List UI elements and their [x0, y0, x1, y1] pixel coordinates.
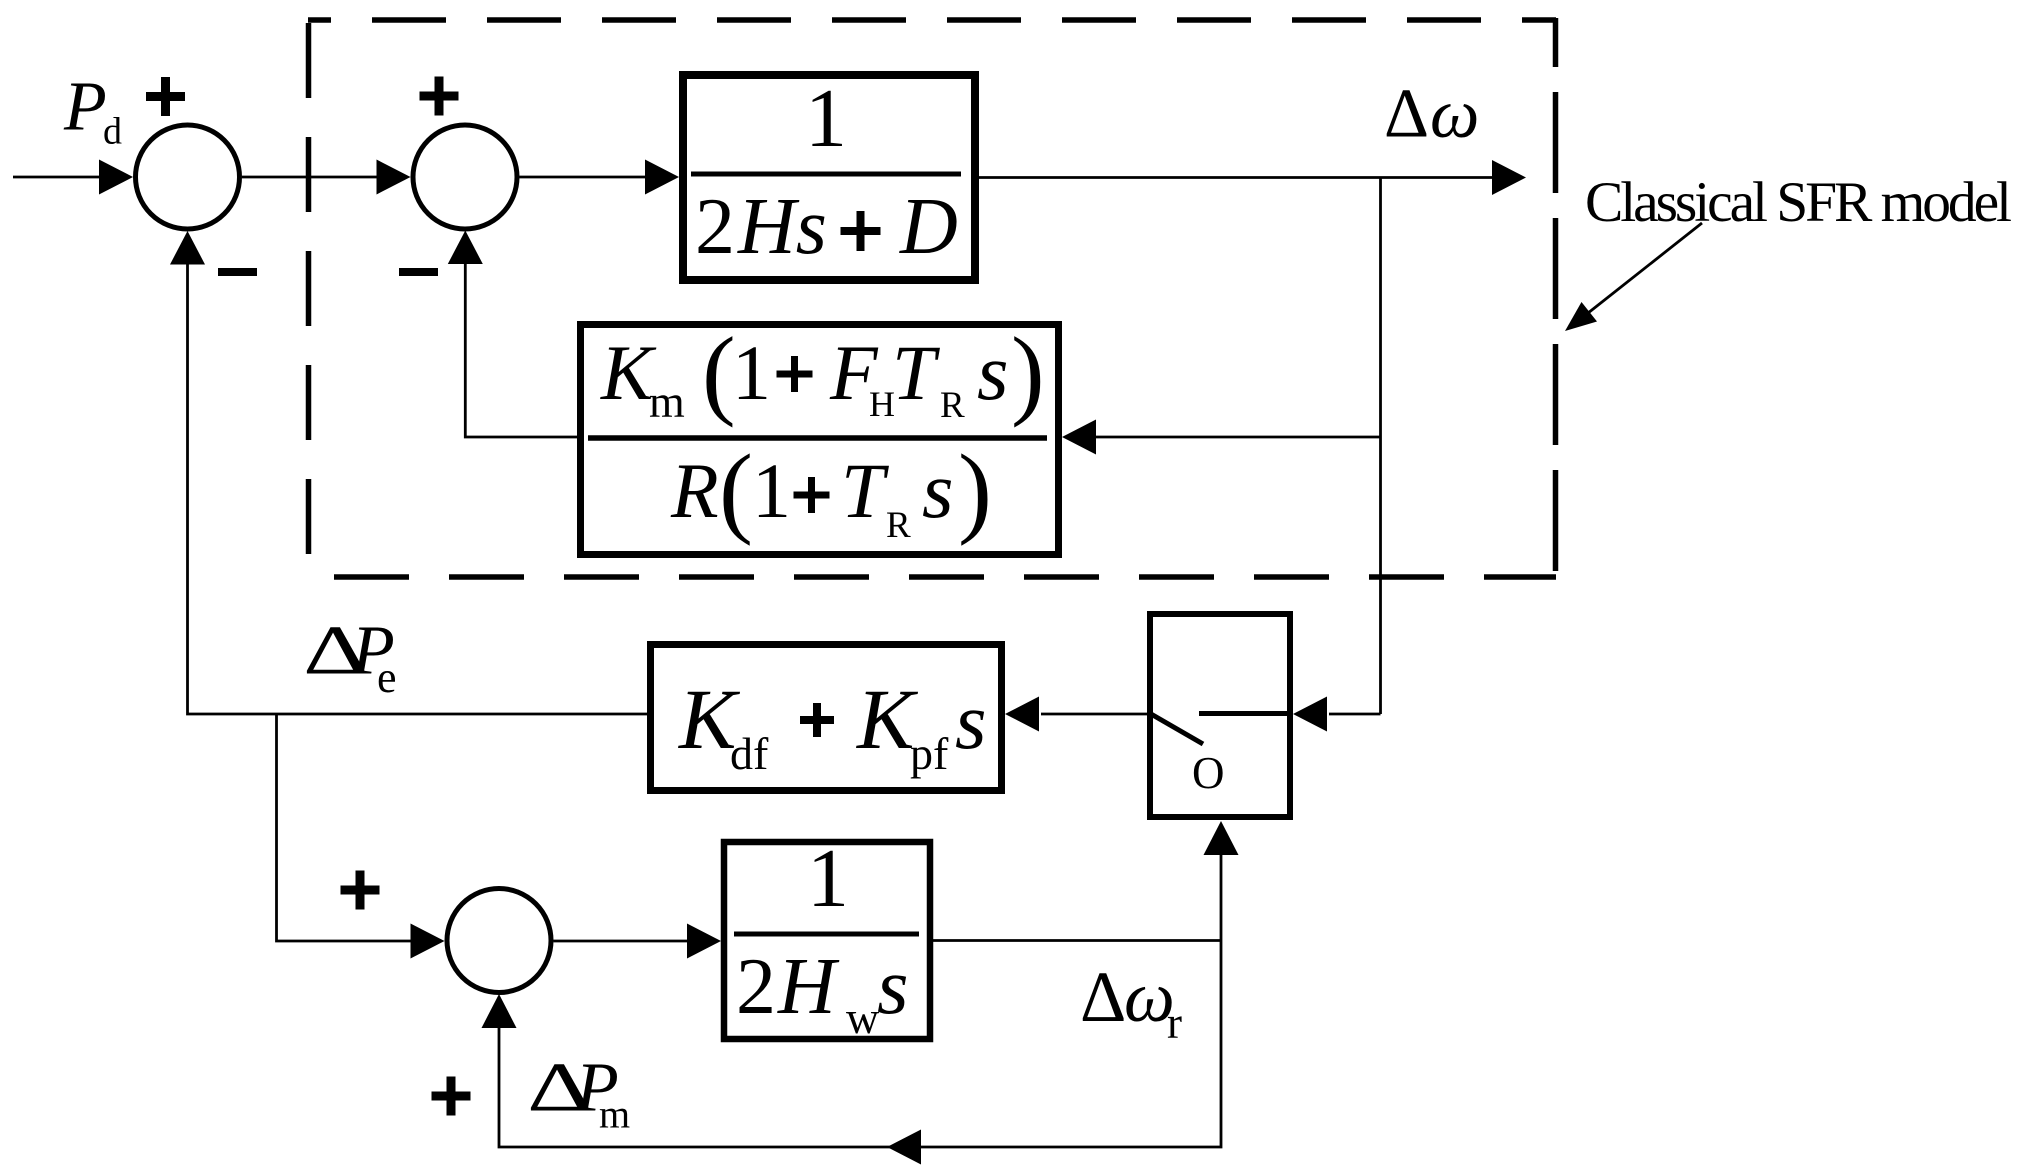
minus sign sum1	[218, 268, 257, 276]
block Km(1+FH TR s)/(R(1+TR s))	[581, 316, 1059, 555]
svg-text:(: (	[719, 434, 753, 547]
switch block	[1150, 614, 1290, 817]
svg-text:T: T	[892, 329, 940, 416]
svg-text:Δ: Δ	[1080, 957, 1126, 1037]
block 1/(2Hs+D)	[683, 72, 975, 280]
svg-text:s: s	[977, 327, 1009, 417]
svg-text:w: w	[846, 992, 880, 1043]
svg-text:R: R	[670, 447, 719, 534]
wire block1 output (delta omega)	[979, 160, 1526, 195]
svg-text:1: 1	[732, 329, 771, 416]
svg-text:H: H	[777, 943, 840, 1031]
wire block4 output	[933, 939, 1221, 942]
svg-text:pf: pf	[910, 728, 949, 779]
svg-text:s: s	[922, 445, 954, 535]
svg-text:O: O	[1192, 748, 1225, 798]
plus sign sum1	[146, 77, 185, 116]
label delta Pm	[527, 1048, 592, 1126]
svg-text:1: 1	[807, 832, 849, 925]
wire sum3 to block 1/(2Hw s)	[554, 924, 722, 959]
wire branch down from delta omega line	[1379, 178, 1382, 715]
wire sum1 to sum2	[242, 160, 411, 195]
wire switch output to Kdf block	[1005, 697, 1147, 732]
svg-text:P: P	[63, 69, 107, 146]
wire feedback into Km block	[1062, 420, 1381, 455]
svg-text:r: r	[1167, 998, 1182, 1048]
svg-text:T: T	[841, 447, 889, 534]
svg-text:): )	[958, 434, 992, 547]
plus sign sum3 bottom	[432, 1077, 471, 1116]
svg-text:): )	[1011, 316, 1045, 428]
svg-text:D: D	[899, 183, 958, 271]
svg-text:e: e	[377, 653, 397, 702]
svg-text:d: d	[103, 111, 122, 153]
wire up into switch bottom	[1204, 821, 1239, 941]
svg-text:2: 2	[695, 183, 735, 271]
wire branch down to sum3	[277, 714, 445, 959]
svg-text:ω: ω	[1430, 76, 1479, 153]
svg-text:df: df	[730, 728, 769, 779]
svg-text:Classical SFR model: Classical SFR model	[1585, 171, 2012, 234]
annotation arrow to dashed box	[1565, 223, 1702, 331]
svg-text:Δ: Δ	[1384, 76, 1429, 153]
wire sum2 to block 1/(2Hs+D)	[520, 160, 680, 195]
summing junction sum2	[413, 125, 517, 229]
wire input Pd	[13, 160, 133, 195]
svg-text:m: m	[649, 376, 685, 427]
svg-text:s: s	[955, 676, 987, 766]
label delta Pe	[303, 611, 368, 689]
summing junction sum1	[136, 125, 240, 229]
svg-text:m: m	[599, 1092, 630, 1137]
plus sign sum2	[420, 77, 459, 116]
block Kdf + Kpf s	[651, 645, 1002, 791]
svg-text:1: 1	[805, 72, 847, 165]
svg-text:R: R	[886, 505, 911, 546]
svg-text:R: R	[940, 385, 965, 426]
block 1/(2Hw s)	[724, 832, 930, 1043]
dashed box Classical SFR model boundary	[308, 18, 1556, 577]
svg-text:2: 2	[736, 943, 776, 1031]
minus sign sum2	[399, 268, 438, 276]
svg-text:(: (	[702, 316, 736, 428]
wire Km output to sum2 minus input	[448, 231, 577, 438]
svg-text:Hs: Hs	[737, 183, 827, 271]
svg-text:1: 1	[752, 447, 791, 534]
wire Kdf output to sum1 minus input	[170, 231, 647, 714]
wire bottom feedback to sum3	[482, 941, 1222, 1165]
svg-text:s: s	[877, 941, 909, 1031]
summing junction sum3	[447, 889, 551, 993]
wire into switch from branch	[1293, 697, 1381, 732]
plus sign sum3	[341, 871, 380, 910]
